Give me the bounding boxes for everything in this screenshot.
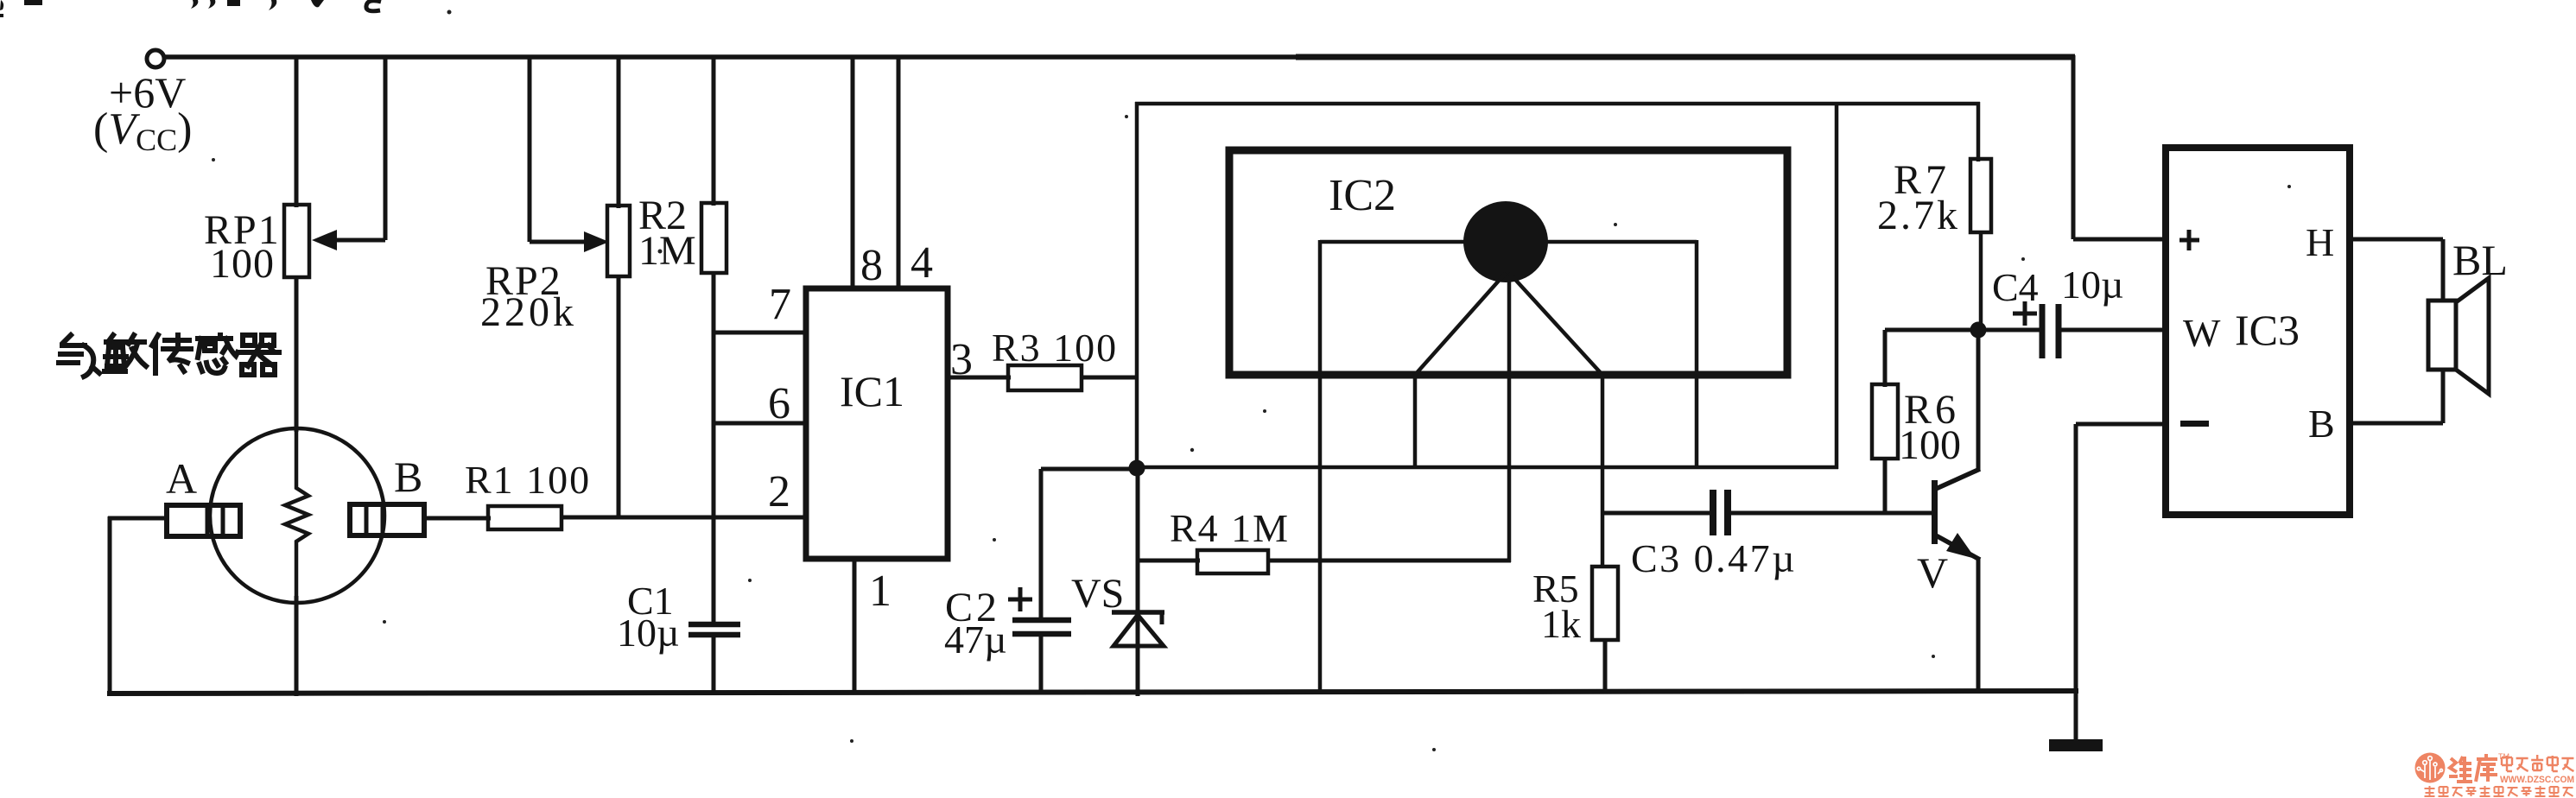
svg-text:B: B — [2308, 402, 2335, 446]
potentiometer RP1 — [284, 205, 309, 277]
resistor R1 — [488, 506, 562, 529]
capacitor C2 — [1012, 617, 1071, 624]
label C2 plus — [1008, 598, 1032, 602]
potentiometer RP2 — [607, 206, 630, 276]
svg-text:C3 0.47µ: C3 0.47µ — [1631, 536, 1797, 580]
watermark slogan (hanzi) — [2425, 786, 2573, 796]
svg-text:1: 1 — [869, 567, 891, 616]
wire inner frame top — [1320, 240, 1697, 244]
svg-text:1k: 1k — [1541, 602, 1581, 646]
wire R1 to IC1 pin2 — [562, 516, 809, 520]
wire disc center leg — [1507, 278, 1512, 562]
wire electrode A to left rail — [108, 516, 169, 521]
buzzer module IC2 outline — [1229, 150, 1787, 375]
svg-text:VS: VS — [1071, 571, 1124, 617]
label IC3 minus pin — [2180, 421, 2209, 427]
wire loop right edge — [1835, 102, 1839, 469]
resistor R6 — [1872, 384, 1898, 459]
svg-text:B: B — [394, 453, 422, 501]
wire loop bottom edge — [1135, 465, 1838, 470]
svg-text:C4: C4 — [1992, 265, 2039, 309]
resistor R5 — [1592, 567, 1618, 640]
label IC3 plus pin — [2179, 238, 2199, 243]
wire RP2 wiper drop — [528, 55, 532, 242]
wire loop top edge — [1135, 102, 1980, 106]
wire IC3 H to speaker — [2350, 237, 2443, 242]
transistor V collector — [1936, 469, 1980, 489]
wire IC2 right leg to C3 — [1602, 511, 1712, 516]
svg-text:1M: 1M — [638, 228, 696, 274]
wire RP1 wiper drop — [384, 55, 388, 240]
svg-text:V: V — [1917, 548, 1948, 597]
node junction dot at loop corner — [1129, 460, 1145, 477]
wire loop left edge — [1135, 102, 1139, 469]
wire RP2 top lead — [617, 55, 621, 208]
page-edge text fragment 7 — [311, 0, 324, 7]
wire RP2 wiper horizontal — [530, 240, 589, 244]
svg-text:BL: BL — [2452, 236, 2508, 284]
svg-text:10µ: 10µ — [617, 611, 680, 655]
terminal +6V — [147, 50, 164, 67]
svg-text:IC1: IC1 — [840, 367, 904, 415]
wire R4 to IC2 center leg — [1268, 559, 1511, 563]
arrow RP1 wiper — [312, 230, 337, 250]
label gas sensor (hanzi) — [59, 335, 279, 377]
svg-text:2: 2 — [768, 467, 790, 516]
wire RP1 top lead — [295, 57, 299, 207]
wire R5 bottom lead — [1603, 640, 1608, 693]
electrode B — [350, 504, 424, 535]
svg-text:A: A — [166, 454, 197, 503]
transistor V base bar — [1932, 480, 1938, 544]
resistor R3 — [1008, 365, 1082, 390]
resistor R2 — [701, 203, 726, 273]
svg-text:4: 4 — [910, 238, 933, 288]
wire IC1 pin3 to R3 — [948, 376, 1011, 380]
wire inner frame left — [1318, 240, 1323, 693]
wire R7 to collector node — [1979, 232, 1983, 330]
wire left rail down — [108, 516, 112, 696]
amplifier IC3 — [2166, 148, 2350, 515]
wire loop top to R7 — [1976, 102, 1981, 161]
wire R2 top lead — [712, 55, 716, 206]
svg-text:IC3: IC3 — [2235, 306, 2300, 354]
scan speckles — [212, 10, 2291, 752]
electrode A — [167, 505, 240, 536]
wire disc right leg — [1509, 273, 1602, 375]
wire C2 bottom lead — [1039, 634, 1044, 693]
wire R6 bottom lead — [1883, 459, 1888, 515]
page-edge text fragment 8 — [366, 1, 381, 11]
wire R2 to C1 vertical — [712, 273, 716, 624]
wire Vcc bus top — [164, 54, 1296, 60]
svg-text:2.7k: 2.7k — [1877, 193, 1960, 238]
wire RP2 bottom lead — [617, 276, 621, 519]
zener diode VS — [1112, 610, 1164, 615]
wire IC3 minus to ground — [2076, 422, 2168, 427]
wire IC3 B to speaker — [2350, 421, 2443, 426]
wire IC1 pin7 — [712, 331, 809, 335]
wire sensor bottom lead — [295, 596, 299, 696]
wire electrode B to R1 — [424, 516, 491, 521]
capacitor C3 — [1710, 490, 1716, 535]
page-edge text fragment 2 — [24, 0, 42, 5]
transistor V emitter with arrow — [1936, 535, 1980, 560]
svg-text:100: 100 — [1899, 422, 1961, 468]
svg-text:47µ: 47µ — [944, 617, 1007, 662]
svg-text:W: W — [2183, 311, 2221, 355]
svg-text:IC2: IC2 — [1329, 171, 1396, 220]
wire IC1 pin1 lead — [853, 559, 857, 693]
wire IC1 pin6 — [712, 421, 809, 426]
wire Vcc drop to IC3 plus — [2072, 55, 2076, 239]
wire disc left leg — [1415, 273, 1506, 375]
wire collector node to C4 — [1978, 328, 2041, 332]
speaker BL — [2428, 301, 2456, 370]
watermark wordmark Weiku (hanzi) — [2449, 754, 2497, 782]
svg-text:8: 8 — [860, 241, 883, 290]
resistor R4 — [1197, 550, 1268, 573]
sensor heater zigzag — [285, 432, 308, 605]
op-amp IC1 — [806, 288, 948, 559]
wire inner frame right — [1695, 240, 1699, 469]
svg-text:R4 1M: R4 1M — [1170, 506, 1290, 550]
resistor R7 — [1970, 159, 1991, 232]
svg-text:R1 100: R1 100 — [465, 458, 591, 502]
gas sensor body circle — [210, 428, 384, 603]
page-edge text fragment 5 — [227, 0, 240, 6]
svg-text:7: 7 — [769, 280, 791, 329]
svg-text:WWW.DZSC.COM: WWW.DZSC.COM — [2500, 775, 2574, 785]
wire IC1 pin8 lead — [851, 55, 855, 291]
page-edge text fragment 6 — [264, 0, 276, 10]
wire node to VS — [1136, 467, 1140, 696]
watermark logo circle — [2415, 753, 2446, 783]
capacitor C1 — [688, 622, 740, 628]
transducer disc of IC2 — [1463, 201, 1548, 282]
page-edge text fragment 1 — [0, 0, 3, 10]
svg-text:R3 100: R3 100 — [992, 326, 1118, 370]
label C4 plus — [2013, 312, 2037, 316]
svg-text:10µ: 10µ — [2061, 263, 2124, 307]
wire ground bus bottom — [107, 691, 2078, 693]
capacitor C4 — [2040, 304, 2046, 358]
page-edge text fragment 3 — [187, 0, 198, 9]
wire C4 to IC3 W pin — [2059, 328, 2168, 332]
wire RP1 wiper horizontal — [332, 238, 385, 243]
wire IC1 pin4 lead — [897, 55, 901, 291]
page-edge text fragment 4 — [205, 0, 215, 9]
wire VS node to R4 — [1138, 559, 1200, 563]
wire R3 to node — [1082, 376, 1139, 380]
wire RP1 bottom lead — [295, 277, 299, 432]
wire C2 to node — [1041, 467, 1137, 472]
ground — [2049, 739, 2103, 751]
node collector junction dot — [1970, 322, 1987, 339]
wire C1 bottom lead — [712, 635, 716, 694]
svg-text:6: 6 — [768, 379, 790, 428]
svg-text:100: 100 — [210, 241, 275, 287]
wire collector node to R6 — [1885, 328, 1980, 332]
wire C3 to transistor base — [1728, 511, 1934, 516]
svg-text:220k: 220k — [480, 289, 577, 335]
arrow RP2 wiper — [584, 231, 609, 252]
watermark text dianzishichangwang (hanzi) — [2502, 755, 2573, 771]
svg-text:H: H — [2306, 220, 2334, 264]
